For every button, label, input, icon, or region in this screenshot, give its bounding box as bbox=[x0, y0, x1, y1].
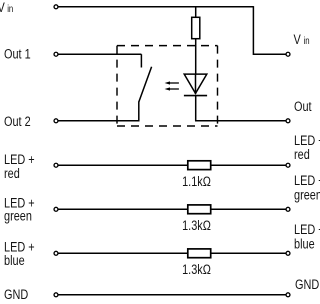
svg-text:GND: GND bbox=[4, 287, 28, 303]
svg-text:Out: Out bbox=[294, 99, 312, 115]
terminal LED + red right bbox=[286, 163, 290, 167]
svg-text:in: in bbox=[304, 35, 310, 46]
wire GND bbox=[58, 294, 285, 296]
label LED + green left bbox=[4, 195, 35, 223]
svg-text:LED +: LED + bbox=[294, 173, 320, 189]
resistor R4 1.3k bbox=[188, 249, 211, 258]
terminal Out right bbox=[286, 119, 290, 123]
terminal V in right bbox=[286, 52, 290, 56]
wire right drop to V in terminal bbox=[253, 6, 285, 54]
resistor R1 (series LED resistor, vertical) bbox=[192, 17, 200, 38]
node junction resistor branch bbox=[195, 7, 197, 18]
switch S1 moving contact stub bbox=[138, 102, 140, 121]
terminal LED + green right bbox=[286, 207, 290, 211]
wire Out to right terminal bbox=[195, 120, 286, 122]
svg-text:blue: blue bbox=[294, 236, 315, 252]
terminal Out 1 left bbox=[54, 52, 58, 56]
label LED + red left bbox=[4, 152, 35, 182]
light emission arrow 1 bbox=[165, 81, 179, 84]
wire LED cathode down bbox=[195, 74, 197, 121]
svg-text:blue: blue bbox=[4, 253, 25, 269]
wire LED + green bbox=[58, 208, 285, 210]
terminal GND right bbox=[286, 293, 290, 297]
label V in left bbox=[0, 0, 13, 15]
terminal LED + blue right bbox=[286, 251, 290, 255]
svg-text:green: green bbox=[4, 208, 32, 224]
svg-text:green: green bbox=[294, 187, 320, 203]
label LED + green right bbox=[294, 173, 320, 203]
wire Out 2 bbox=[58, 120, 139, 122]
svg-text:V: V bbox=[294, 32, 302, 48]
label V in right bbox=[294, 32, 310, 48]
svg-text:1.3kΩ: 1.3kΩ bbox=[182, 262, 211, 278]
svg-text:LED +: LED + bbox=[294, 222, 320, 238]
resistor R2 1.1k bbox=[188, 161, 211, 170]
terminal GND left bbox=[54, 293, 58, 297]
terminal V in left bbox=[54, 5, 58, 9]
svg-text:red: red bbox=[4, 166, 20, 182]
LED D1 (optocoupler emitter) bbox=[184, 74, 207, 96]
svg-text:1.3kΩ: 1.3kΩ bbox=[182, 218, 211, 234]
terminal Out 2 left bbox=[54, 119, 58, 123]
wire V in top bus bbox=[58, 6, 253, 8]
switch S1 fixed contact stub bbox=[140, 54, 142, 67]
svg-text:1.1kΩ: 1.1kΩ bbox=[182, 174, 211, 190]
label LED + blue right bbox=[294, 222, 320, 252]
optocoupler U1 dashed outline bbox=[117, 46, 218, 126]
wire LED + blue bbox=[58, 252, 285, 254]
terminal LED + blue left bbox=[54, 251, 58, 255]
switch S1 blade (open) bbox=[139, 67, 152, 102]
svg-text:red: red bbox=[294, 147, 310, 163]
svg-text:in: in bbox=[7, 3, 13, 14]
wire Out 1 bbox=[58, 53, 141, 55]
wire resistor to LED anode bbox=[195, 39, 197, 74]
svg-text:GND: GND bbox=[295, 277, 319, 293]
resistor R3 1.3k bbox=[188, 205, 211, 214]
terminal LED + red left bbox=[54, 163, 58, 167]
svg-text:V: V bbox=[0, 0, 5, 15]
svg-text:Out 2: Out 2 bbox=[4, 114, 31, 130]
label LED + blue left bbox=[4, 239, 35, 268]
terminal LED + green left bbox=[54, 207, 58, 211]
wire LED + red bbox=[58, 164, 285, 166]
light emission arrow 2 bbox=[165, 87, 179, 90]
label LED + red right bbox=[294, 133, 320, 162]
svg-text:Out 1: Out 1 bbox=[4, 46, 31, 62]
